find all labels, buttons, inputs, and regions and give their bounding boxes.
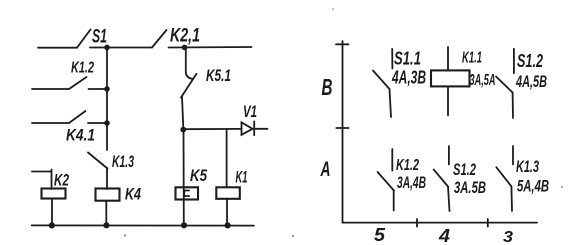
diode V1 bbox=[242, 103, 268, 135]
svg-text:A: A bbox=[320, 158, 331, 181]
wire K1 coil to bottom rail bbox=[226, 199, 228, 226]
coil K4 bbox=[96, 186, 142, 204]
coil K1 bbox=[216, 169, 247, 199]
svg-text:S1.2: S1.2 bbox=[517, 51, 543, 71]
svg-text:S1.2: S1.2 bbox=[453, 161, 476, 179]
tick row top bbox=[336, 43, 349, 45]
svg-text:5A,4B: 5A,4B bbox=[517, 178, 549, 196]
svg-text:K1.1: K1.1 bbox=[462, 50, 482, 67]
contact K1.3 bbox=[88, 153, 134, 172]
svg-text:4A,5B: 4A,5B bbox=[515, 72, 547, 91]
svg-text:B: B bbox=[322, 74, 333, 100]
wire K1 branch vertical bbox=[226, 129, 228, 187]
node K1.2/bus bbox=[104, 86, 110, 92]
svg-text:K5.1: K5.1 bbox=[206, 66, 231, 85]
coil K2 bbox=[42, 172, 70, 199]
svg-text:K1.2: K1.2 bbox=[71, 60, 94, 77]
contact S1.2 (grid A4) bbox=[434, 146, 486, 211]
svg-text:K1.3: K1.3 bbox=[516, 158, 539, 176]
svg-text:5: 5 bbox=[374, 225, 386, 245]
tick column 5/4 bbox=[416, 219, 418, 227]
switch K5.1 bbox=[181, 66, 231, 98]
svg-text:3: 3 bbox=[503, 229, 513, 245]
switch S1 bbox=[77, 27, 107, 48]
scan specks bbox=[124, 8, 563, 237]
axis horizontal (columns) bbox=[343, 222, 538, 224]
wire top rail right segment bbox=[169, 46, 252, 49]
wire top rail left segment bbox=[38, 47, 77, 49]
wire K2 branch vertical bbox=[51, 170, 53, 190]
svg-text:3A,5A: 3A,5A bbox=[470, 72, 496, 89]
coil K5 bbox=[176, 167, 208, 200]
svg-text:K4: K4 bbox=[125, 186, 141, 204]
svg-text:K1: K1 bbox=[236, 169, 248, 187]
tick row middle bbox=[336, 127, 348, 129]
contact K1.2 bbox=[32, 60, 107, 90]
svg-text:K5: K5 bbox=[190, 167, 208, 185]
node K1/bottom rail bbox=[225, 222, 231, 228]
svg-text:S1.1: S1.1 bbox=[394, 49, 421, 69]
wire left bus vertical bbox=[106, 48, 108, 151]
node middle bus/diode branch bbox=[180, 127, 186, 133]
wire middle bus upper with hook bbox=[186, 48, 193, 79]
contact K1.2 (grid A5) bbox=[378, 149, 426, 211]
node junction K2.1/bus bbox=[182, 45, 188, 51]
wire K2 branch horizontal bbox=[32, 171, 52, 173]
wire K1.3 to K4 coil bbox=[106, 168, 108, 189]
svg-text:K2,1: K2,1 bbox=[170, 26, 200, 47]
contact K1.1 with coil box (grid B4) bbox=[431, 47, 496, 116]
wire bottom rail bbox=[32, 224, 254, 226]
wire K4 coil to bottom rail bbox=[105, 201, 107, 226]
svg-text:S1: S1 bbox=[92, 27, 107, 48]
wire diode branch horizontal bbox=[183, 128, 241, 130]
node K4/bottom rail bbox=[103, 222, 109, 228]
wire top rail middle segment bbox=[90, 47, 152, 49]
node K5/bottom rail bbox=[181, 222, 187, 228]
svg-text:3A.5B: 3A.5B bbox=[454, 179, 486, 197]
switch K2.1 bbox=[152, 26, 200, 48]
wire K2 coil to bottom rail bbox=[51, 199, 53, 226]
contact S1.1 (grid B5) bbox=[373, 49, 426, 118]
svg-text:3A,4B: 3A,4B bbox=[397, 173, 426, 192]
node K2/bottom rail bbox=[49, 222, 55, 228]
contact K4.1 bbox=[32, 111, 107, 145]
svg-text:K1.2: K1.2 bbox=[396, 157, 419, 174]
svg-text:4A,3B: 4A,3B bbox=[391, 68, 426, 88]
tick column 4/3 bbox=[487, 219, 489, 227]
node K4.1/bus bbox=[104, 120, 110, 126]
contact S1.2 (grid B3) bbox=[496, 49, 547, 118]
svg-text:K2: K2 bbox=[54, 172, 69, 190]
svg-text:V1: V1 bbox=[243, 103, 257, 121]
node junction S1/bus bbox=[104, 45, 110, 51]
wire middle bus lower bbox=[182, 97, 183, 131]
axis vertical (rows) bbox=[342, 41, 344, 223]
svg-text:K4.1: K4.1 bbox=[66, 127, 95, 145]
svg-text:K1.3: K1.3 bbox=[112, 153, 134, 171]
wire bus to K5 coil and bottom rail bbox=[183, 130, 185, 226]
contact K1.3 (grid A3) bbox=[496, 146, 549, 211]
svg-text:4: 4 bbox=[438, 226, 450, 245]
